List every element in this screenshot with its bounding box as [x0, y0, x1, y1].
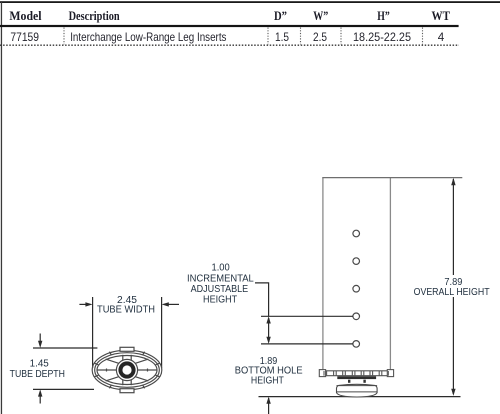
svg-text:HEIGHT: HEIGHT — [251, 376, 284, 387]
svg-text:1.45: 1.45 — [30, 359, 50, 370]
svg-text:WT: WT — [432, 8, 451, 23]
svg-text:Interchange Low-Range Leg Inse: Interchange Low-Range Leg Inserts — [70, 31, 226, 44]
svg-text:1.5: 1.5 — [275, 31, 289, 44]
svg-text:77159: 77159 — [10, 31, 39, 44]
svg-text:W”: W” — [313, 8, 328, 23]
svg-text:OVERALL HEIGHT: OVERALL HEIGHT — [414, 287, 490, 298]
svg-text:HEIGHT: HEIGHT — [203, 295, 237, 306]
svg-text:INCREMENTAL: INCREMENTAL — [187, 273, 254, 284]
svg-text:TUBE DEPTH: TUBE DEPTH — [10, 369, 65, 380]
svg-text:Model: Model — [9, 8, 42, 23]
svg-text:H”: H” — [377, 8, 390, 23]
svg-text:4: 4 — [438, 31, 445, 44]
svg-text:18.25-22.25: 18.25-22.25 — [353, 31, 411, 44]
svg-text:1.00: 1.00 — [212, 263, 231, 274]
svg-text:Description: Description — [69, 8, 121, 23]
svg-text:TUBE WIDTH: TUBE WIDTH — [97, 305, 155, 316]
svg-text:2.5: 2.5 — [313, 31, 327, 44]
svg-text:D”: D” — [274, 8, 287, 23]
svg-text:ADJUSTABLE: ADJUSTABLE — [191, 284, 249, 295]
